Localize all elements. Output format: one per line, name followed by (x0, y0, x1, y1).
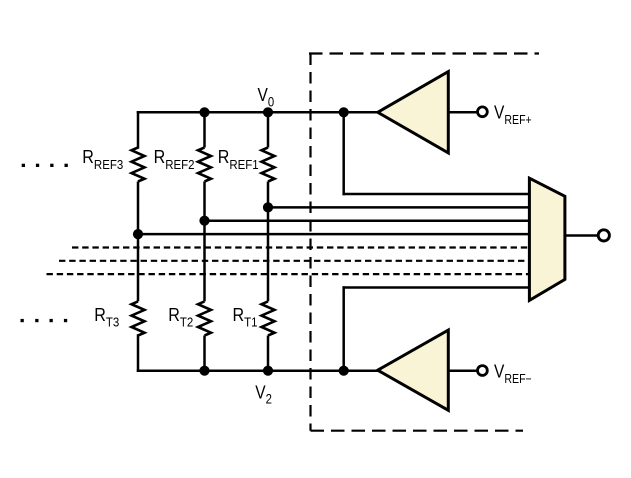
wire: column 2 upper lead (x=204.5) (203, 112, 206, 147)
wire: column 3 upper lead (x=138) (137, 112, 140, 147)
svg-text:RREF1: RREF1 (218, 146, 259, 172)
node: junction dot on bottom bus at column 2 (199, 366, 209, 376)
wire: column 1 lower lead (267, 336, 270, 371)
svg-text:V0: V0 (258, 85, 275, 110)
wire: mux output (565, 234, 597, 237)
wire: mux input line 2 from node under RREF1 (y=207.4) (268, 206, 531, 209)
wire: bottom buffer feed up from node (x=343.7) (342, 288, 345, 371)
wire: dashed mux input line 5 (y=247.5) (72, 246, 531, 248)
svg-text:VREF+: VREF+ (494, 102, 532, 127)
resistor RT3 zigzag (132, 301, 145, 335)
node: junction dot under RREF3 (133, 229, 143, 239)
wire: column 2 middle segment (203, 182, 206, 302)
wire: mux input line 1 (y=194) (344, 193, 531, 196)
resistor RREF2 zigzag (198, 148, 211, 182)
svg-text:VREF−: VREF− (494, 361, 532, 386)
terminal VREF+ circle (478, 107, 488, 117)
wire: bottom bus V2 (y=370.7) (138, 369, 378, 372)
IC boundary dashed box: left edge (309, 54, 311, 431)
resistor RREF3 zigzag (132, 148, 145, 182)
wire: column 3 middle segment (137, 182, 140, 302)
resistor RREF1 zigzag (262, 148, 275, 182)
wire: mux input line 8 (y=287.5) (344, 286, 531, 289)
resistor RT2 zigzag (198, 301, 211, 335)
wire: top buffer feed down from node (x=343.7) (342, 112, 345, 194)
wire: mux input line 4 from node under RREF3 (y=234.1) (138, 233, 531, 236)
wire: column 1 middle segment (267, 182, 270, 302)
wire: mux input line 3 from node under RREF2 (y=220.7) (205, 219, 532, 222)
node V0: junction dot on top bus at column 1 (263, 107, 273, 117)
wire: dashed mux input line 7 (y=274.1) (47, 273, 532, 275)
IC boundary dashed box: top edge (309, 52, 539, 54)
svg-text:RREF3: RREF3 (82, 146, 123, 172)
wire: U2 output (448, 369, 477, 372)
wire: top reference bus V0 (y=112.3) (138, 111, 378, 114)
wire: column 3 lower lead (137, 336, 140, 371)
node: junction dot on top bus at column 2 (199, 107, 209, 117)
resistor RT1 zigzag (262, 301, 275, 335)
terminal VREF- circle (478, 366, 488, 376)
wire: dashed mux input line 6 (y=260.8) (59, 260, 531, 262)
node: junction dot under RREF2 (199, 216, 209, 226)
op-amp buffer U2 (VREF- driver) (378, 330, 449, 410)
wire: column 1 upper lead (x=268) (267, 112, 270, 147)
svg-text:RT1: RT1 (233, 304, 258, 330)
op-amp buffer U1 (VREF+ driver) (378, 72, 449, 153)
svg-text:V2: V2 (255, 382, 272, 407)
ellipsis dots lower-left (continuation of termination resistors) (21, 319, 68, 322)
node: junction dot bottom buffer input (339, 366, 349, 376)
node: junction dot under RREF1 (263, 202, 273, 212)
wire: column 2 lower lead (203, 336, 206, 371)
ellipsis dots upper-left (continuation of reference resistors) (22, 164, 68, 167)
node: junction dot top buffer input (339, 107, 349, 117)
svg-text:RREF2: RREF2 (154, 146, 195, 172)
svg-text:RT3: RT3 (94, 304, 119, 330)
multiplexer U3 (529, 178, 565, 300)
IC boundary dashed box: bottom edge (311, 430, 524, 432)
wire: U1 output (448, 111, 477, 114)
node V2: junction dot on bottom bus at column 1 (263, 366, 273, 376)
svg-text:RT2: RT2 (168, 304, 193, 330)
terminal: mux output circle (598, 230, 609, 241)
